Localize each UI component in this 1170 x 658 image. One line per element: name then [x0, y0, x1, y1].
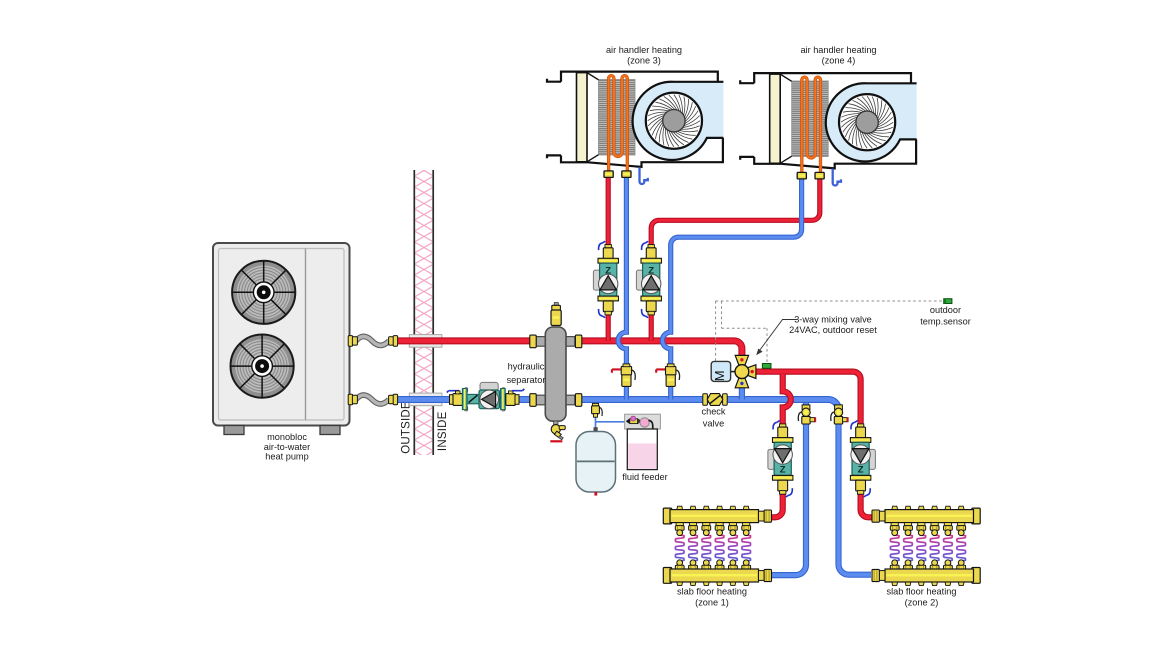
svg-text:24VAC, outdoor reset: 24VAC, outdoor reset — [789, 325, 877, 335]
zone 2 return purge valve — [831, 405, 848, 424]
svg-text:heat pump: heat pump — [265, 452, 308, 462]
pipe: zone 1 return riser — [803, 403, 809, 424]
zone 2 circulator pump P2 — [850, 421, 875, 497]
pipe: zone 2 supply drop to manifold — [861, 494, 874, 518]
zone 4 return balancing valve — [656, 364, 679, 387]
slab floor heating manifold zone 1 — [663, 506, 771, 585]
zone 1 circulator pump P1 — [768, 421, 793, 497]
pipe: zone 4 supply riser (L-run) — [651, 179, 820, 341]
svg-text:OUTSIDE: OUTSIDE — [401, 401, 413, 454]
supply pipe sensor — [762, 364, 771, 369]
svg-text:slab floor heating: slab floor heating — [677, 587, 747, 597]
fluid feeder label — [622, 472, 667, 482]
svg-text:(zone 3): (zone 3) — [627, 55, 661, 65]
zone 1 return purge valve — [798, 405, 815, 424]
svg-text:air handler heating: air handler heating — [606, 45, 682, 55]
svg-text:check: check — [701, 406, 725, 416]
heat pump foot right — [320, 426, 340, 435]
pipe: hot supply heat pump to separator — [398, 337, 531, 344]
zone 3 return balancing valve — [612, 364, 635, 387]
hydraulic separator — [530, 327, 582, 421]
svg-text:air handler heating: air handler heating — [800, 45, 876, 55]
svg-text:temp.sensor: temp.sensor — [920, 316, 971, 326]
outdoor sensor label — [920, 305, 971, 326]
air handler zone 4 label — [800, 45, 876, 65]
slab zone 2 label — [887, 587, 957, 608]
pipe: hot supply separator to mixing valve with zone3/zone4 tees — [581, 341, 742, 357]
circulator pump P0 with isolation valves (heat pump loop) — [447, 382, 524, 411]
svg-text:monobloc: monobloc — [267, 432, 307, 442]
pipe: mixing valve bypass stub — [739, 377, 745, 400]
check valve on return main — [703, 394, 727, 406]
wall sleeve (return) — [409, 393, 442, 406]
flex connector (return) — [348, 394, 397, 405]
mixing valve actuator M — [711, 361, 736, 381]
pipe: return heat pump to separator through wall — [398, 396, 531, 403]
label OUTSIDE — [401, 401, 413, 454]
air handler zone 3 label — [606, 45, 682, 65]
svg-text:Z: Z — [858, 464, 864, 475]
label INSIDE — [437, 411, 449, 451]
heat pump label — [264, 432, 310, 462]
pipe: mixed supply from mixing valve to slab zones — [749, 372, 861, 424]
pipe: zone 1 return riser lower — [769, 423, 806, 575]
3-way mixing valve body — [735, 355, 756, 387]
svg-text:Z: Z — [780, 464, 786, 475]
hydraulic separator label — [507, 362, 546, 386]
pipe: zone 3 supply riser — [606, 177, 611, 341]
svg-text:(zone 4): (zone 4) — [822, 55, 856, 65]
control wiring (dashed) to outdoor sensor and supply sensor — [716, 301, 944, 363]
flex connector (supply) — [348, 336, 397, 347]
zone 3 circulator pump P3 — [593, 241, 618, 317]
pipe: return main separator to zone2 elbow — [581, 400, 839, 425]
air purger under return main — [592, 403, 603, 417]
pipe: zone 1 supply drop to manifold — [769, 494, 783, 518]
svg-text:separator: separator — [507, 375, 546, 385]
fluid feeder — [625, 414, 661, 469]
wall sleeve (supply) — [409, 335, 442, 348]
pipe: zone 4 return drop (L-run) with hop over supply main — [662, 179, 801, 368]
zone 4 circulator pump P4 — [636, 241, 661, 317]
svg-text:air-to-water: air-to-water — [264, 442, 310, 452]
pipe: zone 3 return drop with hop over supply main — [618, 177, 626, 368]
wall with insulation — [414, 170, 433, 455]
svg-text:(zone 2): (zone 2) — [905, 598, 939, 608]
separator air vent — [551, 303, 561, 326]
expansion tank — [576, 427, 616, 495]
heat pump fan F2 — [231, 335, 294, 398]
svg-text:outdoor: outdoor — [930, 305, 961, 315]
svg-text:M: M — [712, 370, 727, 381]
svg-text:valve: valve — [703, 418, 724, 428]
pipe: expansion tank / feeder connection — [596, 415, 627, 428]
svg-text:slab floor heating: slab floor heating — [887, 587, 957, 597]
air handler zone 3 — [547, 72, 723, 184]
3-way mixing valve label with leader arrow — [756, 315, 877, 356]
pipe: zone 2 return riser lower — [839, 423, 872, 575]
air handler zone 4 — [740, 73, 916, 185]
slab zone 1 label — [677, 587, 747, 608]
slab floor heating manifold zone 2 — [872, 506, 980, 585]
separator drain valve — [550, 421, 565, 441]
svg-text:(zone 1): (zone 1) — [695, 598, 729, 608]
svg-text:3-way mixing valve: 3-way mixing valve — [794, 315, 872, 325]
svg-text:INSIDE: INSIDE — [437, 411, 449, 451]
svg-text:fluid feeder: fluid feeder — [622, 472, 667, 482]
outdoor temp sensor — [944, 299, 952, 304]
heat pump foot left — [224, 426, 244, 435]
monobloc air-to-water heat pump U1 — [213, 243, 350, 426]
check valve label — [701, 406, 725, 428]
heat pump fan F1 — [232, 261, 295, 324]
svg-text:hydraulic: hydraulic — [508, 362, 545, 372]
pipe: zone 1 supply drop with hop over return main — [783, 374, 791, 424]
